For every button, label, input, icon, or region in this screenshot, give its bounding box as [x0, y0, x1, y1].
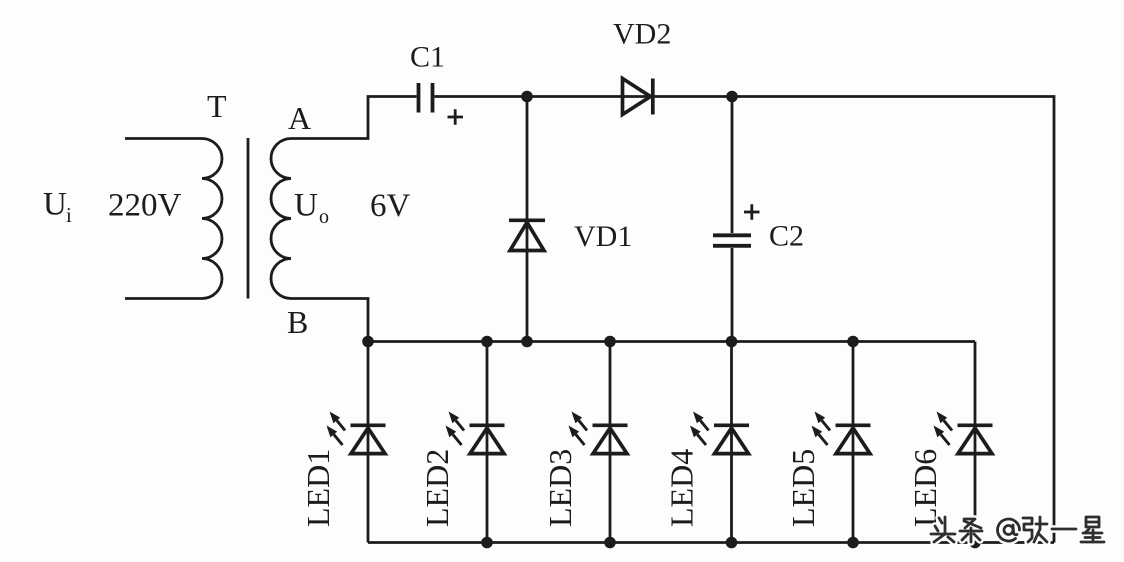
svg-text:LED4: LED4: [664, 449, 700, 527]
svg-text:LED3: LED3: [542, 449, 578, 527]
svg-text:i: i: [66, 203, 72, 227]
svg-text:LED5: LED5: [785, 449, 821, 527]
svg-text:VD1: VD1: [574, 220, 632, 253]
svg-text:C1: C1: [410, 41, 445, 74]
svg-text:6V: 6V: [370, 188, 411, 224]
svg-text:o: o: [319, 206, 329, 228]
svg-text:220V: 220V: [108, 188, 182, 224]
svg-text:C2: C2: [769, 220, 804, 253]
svg-text:LED2: LED2: [419, 449, 455, 527]
svg-text:U: U: [43, 187, 67, 223]
svg-text:U: U: [294, 188, 318, 224]
svg-text:VD2: VD2: [613, 18, 671, 51]
svg-text:LED1: LED1: [300, 449, 336, 527]
svg-text:B: B: [287, 304, 308, 340]
svg-text:T: T: [207, 88, 227, 124]
svg-text:A: A: [288, 100, 311, 136]
